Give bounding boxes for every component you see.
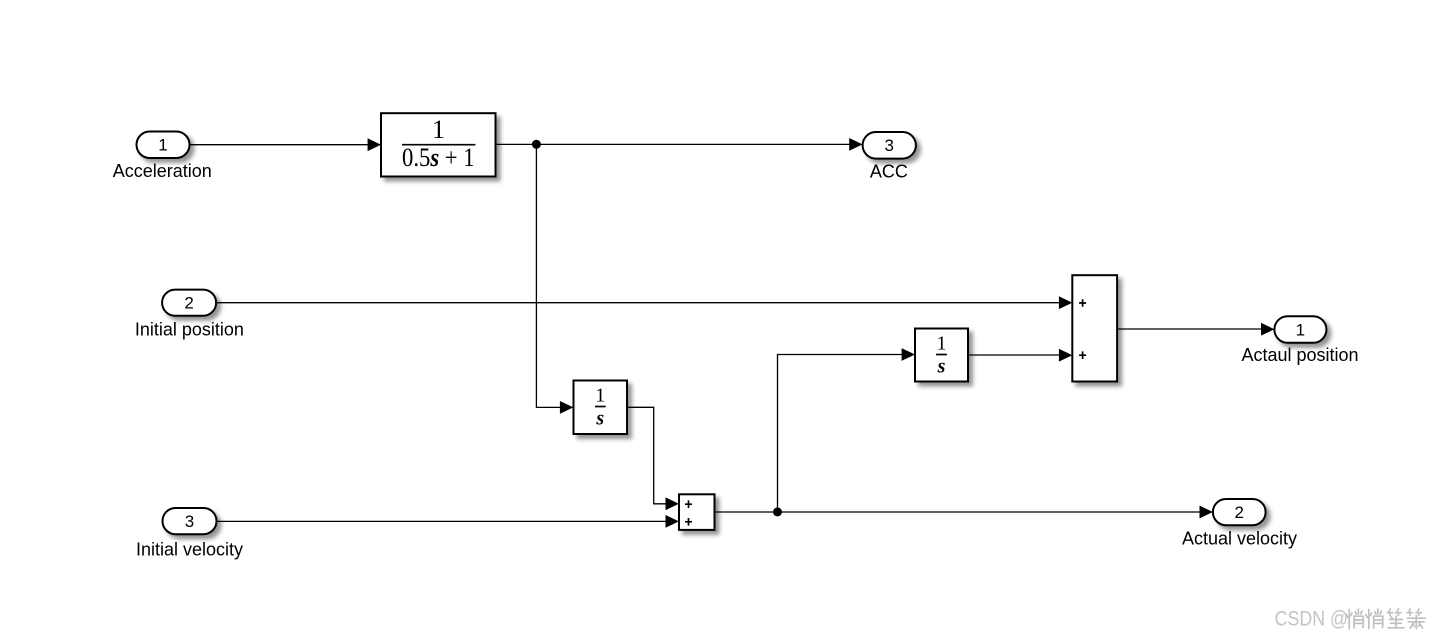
wire: node A down to Integrator1 <box>536 144 573 414</box>
wire: Integrator2 to Sum2 bottom input <box>968 349 1072 362</box>
svg-text:2: 2 <box>184 294 193 313</box>
svg-text:3: 3 <box>185 512 194 531</box>
svg-text:1: 1 <box>1296 320 1305 339</box>
outport 1 (Actaul position) <box>1241 316 1358 365</box>
svg-text:Initial velocity: Initial velocity <box>136 539 243 559</box>
wire: node B up to Integrator2 <box>778 348 916 512</box>
watermark glyph sheng <box>1387 609 1404 628</box>
integrator U2 (1/s) <box>915 329 968 382</box>
svg-text:Initial position: Initial position <box>135 319 244 339</box>
node A (branch dot on ACC line) <box>532 140 541 149</box>
sum block S2 (+ +) <box>1072 275 1117 381</box>
watermark glyph xiao3 <box>1407 609 1425 629</box>
svg-text:s: s <box>595 407 604 429</box>
wire: Sum1 output to Actual velocity outport (through node) <box>715 506 1213 519</box>
svg-text:ACC: ACC <box>870 161 908 181</box>
wire: Inport 2 to Sum2 top input <box>216 296 1072 309</box>
svg-text:1: 1 <box>937 333 947 355</box>
svg-text:Actual velocity: Actual velocity <box>1182 529 1297 549</box>
svg-text:0.5s + 1: 0.5s + 1 <box>402 143 475 172</box>
watermark glyph xiao1 <box>1346 609 1363 629</box>
integrator U1 (1/s) <box>574 381 628 435</box>
wire: Inport 1 to Transfer Fcn <box>190 138 382 151</box>
svg-text:1: 1 <box>158 136 167 155</box>
sum block S1 (+ +) <box>679 494 715 530</box>
wire: Transfer Fcn to ACC outport (through node) <box>496 138 863 151</box>
inport 2 (Initial position) <box>135 290 244 340</box>
svg-text:CSDN @: CSDN @ <box>1275 607 1349 630</box>
wire: Sum2 output to Actaul position outport <box>1117 323 1274 336</box>
wire: Integrator1 to Sum1 top input <box>627 407 679 510</box>
outport 2 (Actual velocity) <box>1182 499 1297 549</box>
node B (branch dot on velocity line) <box>773 507 782 516</box>
watermark glyph xiao2 <box>1366 609 1383 629</box>
svg-text:2: 2 <box>1234 503 1243 522</box>
inport 3 (Initial velocity) <box>136 508 243 559</box>
transfer function block 1/(0.5s+1) <box>381 113 496 176</box>
svg-text:1: 1 <box>432 115 445 144</box>
svg-text:s: s <box>937 355 946 377</box>
svg-text:3: 3 <box>884 136 893 155</box>
svg-text:Actaul position: Actaul position <box>1241 345 1358 365</box>
inport 1 (Acceleration) <box>113 132 212 182</box>
svg-text:Acceleration: Acceleration <box>113 161 212 181</box>
svg-text:1: 1 <box>595 385 605 407</box>
wire: Inport 3 to Sum1 bottom input <box>218 515 679 528</box>
outport 3 (ACC) <box>863 132 916 181</box>
